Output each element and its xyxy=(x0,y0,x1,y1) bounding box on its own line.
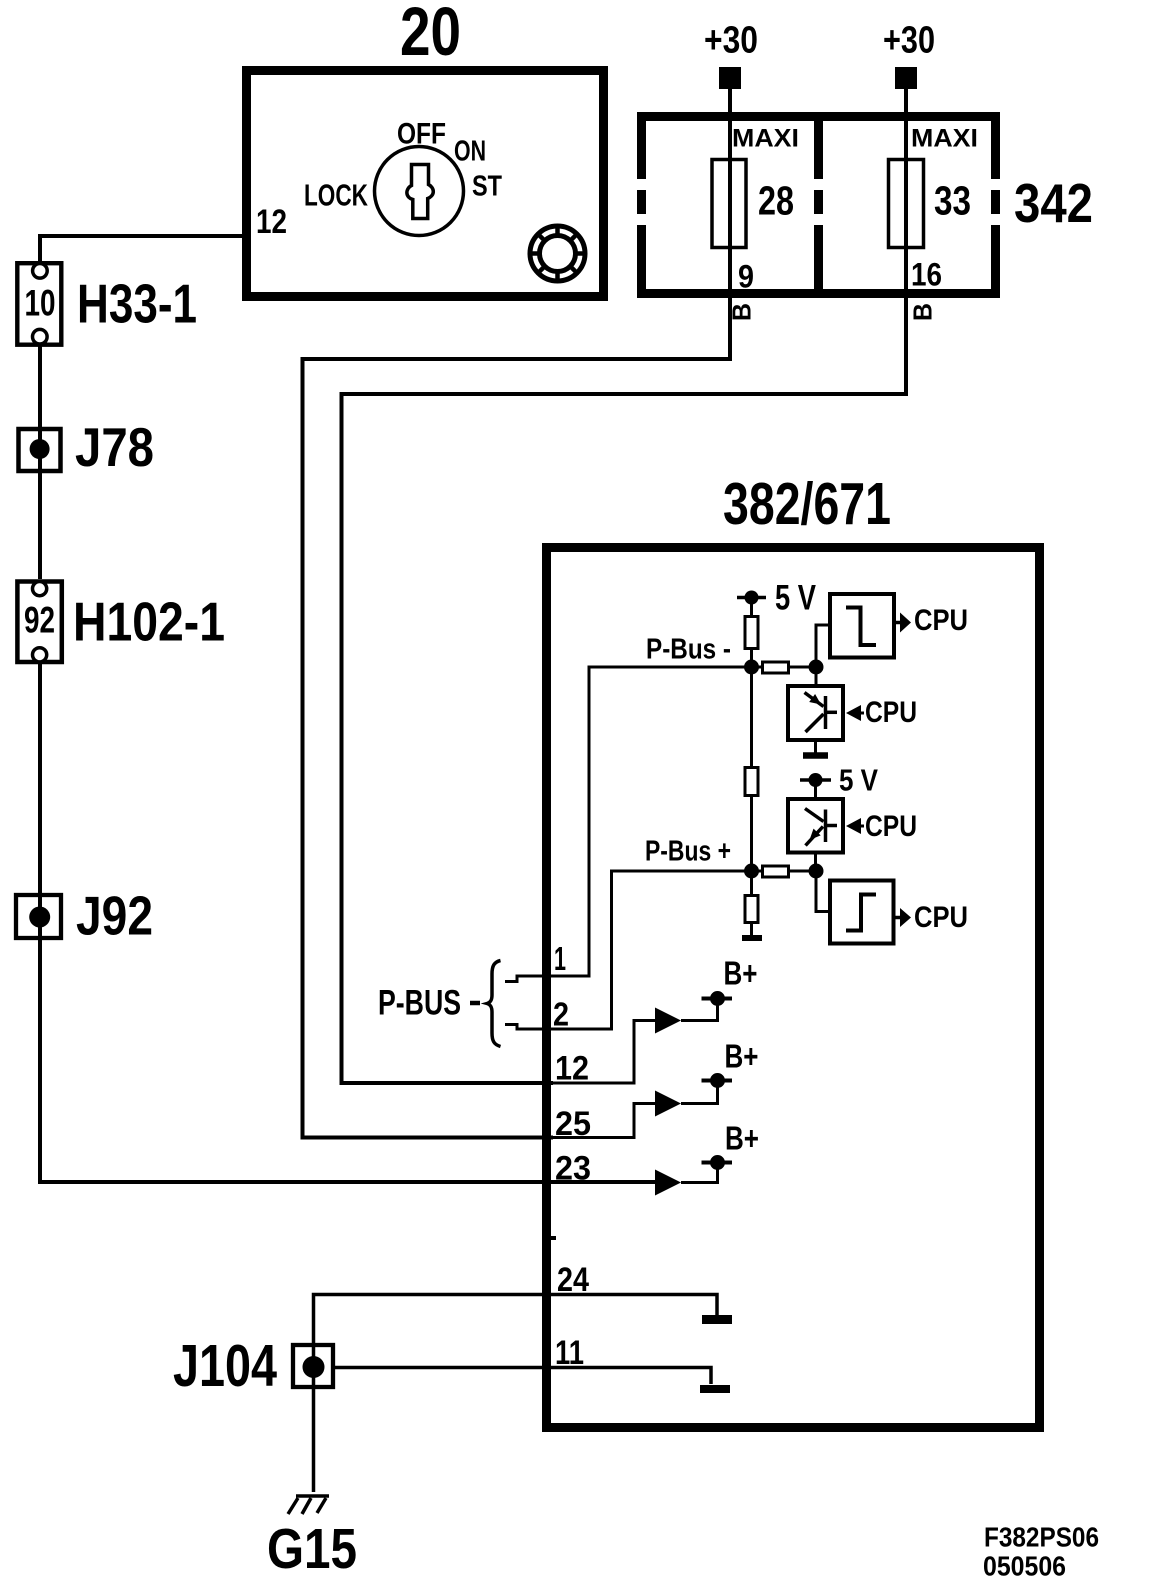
resistor R3 (P-Bus- to P-Bus+) xyxy=(745,768,758,796)
svg-text:+30: +30 xyxy=(704,20,758,62)
svg-text:12: 12 xyxy=(256,203,287,241)
wire left chain bottom / pin 23 net xyxy=(40,663,657,1182)
svg-text:G15: G15 xyxy=(267,1517,357,1581)
junction J78 xyxy=(19,429,61,471)
diode D2 xyxy=(655,1091,681,1117)
connector H33-1 xyxy=(17,263,61,345)
minus tick on border xyxy=(545,1236,556,1240)
junction J92 xyxy=(16,895,61,938)
svg-text:F382PS06: F382PS06 xyxy=(984,1522,1099,1553)
svg-text:20: 20 xyxy=(400,0,461,70)
schmitt trigger U2 box xyxy=(830,881,894,944)
svg-text:P-Bus -: P-Bus - xyxy=(646,634,731,666)
svg-text:B+: B+ xyxy=(725,1038,759,1075)
ignition switch 20 (box) xyxy=(247,71,604,297)
wire junction to schmitt trigger U1 xyxy=(816,625,830,667)
resistor R1 (5V to P-Bus-) xyxy=(745,617,758,649)
svg-text:CPU: CPU xyxy=(914,604,968,637)
ground below Q1 xyxy=(803,738,828,756)
arrow U2 to CPU xyxy=(894,908,911,927)
svg-text:9: 9 xyxy=(738,259,754,295)
wire pin 12 of switch 20 to H33-1 xyxy=(40,236,242,265)
svg-text:ON: ON xyxy=(454,136,486,168)
control module box 382/671 xyxy=(547,548,1040,1428)
svg-text:5 V: 5 V xyxy=(839,763,878,798)
P-Bus plus net: pin 2 hook to junction xyxy=(505,871,752,1029)
diode D1 xyxy=(655,1008,681,1034)
svg-text:J104: J104 xyxy=(173,1333,277,1399)
lock barrel ring xyxy=(530,226,585,281)
wire junction to schmitt trigger U2 xyxy=(816,871,830,912)
junction dot P-Bus- right xyxy=(809,660,824,675)
key cylinder circle xyxy=(375,147,464,236)
series resistor R4 (P-Bus+) xyxy=(752,866,817,877)
svg-text:ST: ST xyxy=(472,171,502,203)
svg-text:H102-1: H102-1 xyxy=(73,591,225,653)
svg-text:CPU: CPU xyxy=(914,901,968,934)
svg-text:23: 23 xyxy=(555,1150,591,1188)
P-BUS dash xyxy=(470,1001,480,1006)
wire fuse 33 to pin 12 of 382/671 xyxy=(342,89,907,1083)
svg-text:1: 1 xyxy=(554,940,566,977)
ground bar pin 24 xyxy=(702,1315,732,1324)
schmitt U1 falling-edge symbol xyxy=(846,608,876,646)
svg-text:LOCK: LOCK xyxy=(304,178,368,213)
junction dot P-Bus- left xyxy=(744,660,759,675)
wire fuse 28 to pin 25 of 382/671 xyxy=(303,89,731,1138)
svg-text:382/671: 382/671 xyxy=(723,471,891,537)
arrow U1 to CPU xyxy=(894,613,911,633)
svg-text:92: 92 xyxy=(24,600,55,641)
+30 terminal square (left) xyxy=(719,67,741,89)
wire D3 to B+ xyxy=(681,1163,718,1183)
svg-text:+30: +30 xyxy=(883,20,935,62)
fuse 28 element xyxy=(712,160,746,248)
svg-text:OFF: OFF xyxy=(397,118,446,151)
svg-text:28: 28 xyxy=(758,178,794,224)
5V supply terminal (top) xyxy=(737,591,766,605)
svg-text:J78: J78 xyxy=(75,416,154,478)
junction dot P-Bus+ left xyxy=(744,864,759,879)
svg-text:P-BUS: P-BUS xyxy=(378,984,461,1023)
P-Bus minus net: pin 1 hook to junction xyxy=(505,667,752,982)
ground bar pin 11 xyxy=(700,1385,730,1393)
pin 12 internal wire to diode D1 xyxy=(553,1021,655,1084)
svg-text:MAXI: MAXI xyxy=(911,125,978,153)
B+ terminal (bottom) xyxy=(702,1155,733,1170)
svg-text:2: 2 xyxy=(553,996,569,1033)
key slot symbol xyxy=(407,165,433,219)
wire D2 to B+ xyxy=(681,1081,718,1104)
diode D3 (pin 23) xyxy=(655,1170,681,1196)
B+ terminal (middle) xyxy=(702,1073,733,1088)
svg-text:050506: 050506 xyxy=(983,1551,1066,1582)
wire D1 to B+ xyxy=(681,999,718,1021)
resistor R5 (P-Bus+ to ground) xyxy=(742,871,762,938)
transistor Q2 box xyxy=(788,799,843,853)
svg-text:B+: B+ xyxy=(724,955,758,992)
svg-text:H33-1: H33-1 xyxy=(77,273,197,335)
svg-text:16: 16 xyxy=(911,257,942,293)
pin 11 net to internal ground xyxy=(335,1368,711,1385)
svg-text:10: 10 xyxy=(25,283,56,324)
svg-text:CPU: CPU xyxy=(865,810,917,843)
arrow CPU to Q2 xyxy=(846,818,864,834)
pin 24 net to internal ground xyxy=(314,1295,718,1493)
fuse 33 element xyxy=(889,160,924,248)
schmitt U2 rising-edge symbol xyxy=(846,895,876,931)
pin 25 internal wire to diode D2 xyxy=(553,1104,655,1138)
svg-text:B: B xyxy=(908,303,938,321)
svg-text:B+: B+ xyxy=(725,1120,759,1157)
svg-text:CPU: CPU xyxy=(865,696,917,729)
chassis ground G15 xyxy=(288,1496,329,1514)
B+ terminal (top) xyxy=(702,991,733,1006)
+30 terminal square (right) xyxy=(895,67,917,89)
svg-text:33: 33 xyxy=(934,178,971,224)
5V supply terminal (middle) xyxy=(800,773,831,787)
svg-text:J92: J92 xyxy=(76,885,153,947)
junction dot P-Bus+ right xyxy=(809,864,824,879)
connector H102-1 xyxy=(17,582,61,663)
wire Q2 to P-Bus+ junction xyxy=(814,852,817,871)
transistor Q1 box xyxy=(788,686,843,740)
arrow CPU to Q1 xyxy=(846,705,864,721)
schmitt trigger U1 box xyxy=(830,594,894,658)
svg-text:342: 342 xyxy=(1014,172,1093,234)
wire junction to transistor Q1 xyxy=(815,667,818,684)
wire 5V to transistor Q2 xyxy=(814,780,817,800)
junction J104 xyxy=(293,1345,333,1387)
svg-text:P-Bus +: P-Bus + xyxy=(645,836,731,868)
fuse holder box 342 (dashed) xyxy=(637,112,1000,298)
P-Bus minus vertical rail xyxy=(750,598,753,872)
svg-text:B: B xyxy=(727,303,757,321)
P-BUS brace xyxy=(487,961,501,1047)
series resistor R2 (P-Bus-) xyxy=(752,662,817,673)
svg-text:MAXI: MAXI xyxy=(732,125,799,153)
svg-text:5 V: 5 V xyxy=(775,579,817,618)
wire left chain top xyxy=(38,345,42,579)
